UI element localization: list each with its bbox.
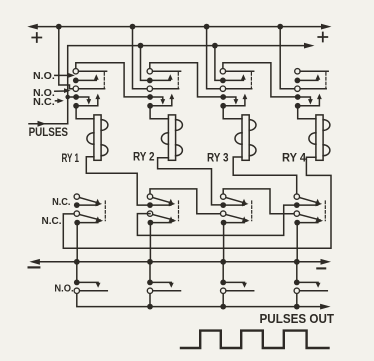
arrow PULSES OUT	[320, 304, 331, 310]
wire RY1 middle armature to - bus	[76, 225, 78, 261]
armature pivot RY2 upper 3	[147, 103, 153, 109]
armature pivot RY4 bottom	[294, 280, 300, 286]
mechanical linkage RY2 upper	[177, 73, 179, 88]
junction - bus at RY2	[147, 259, 153, 265]
armature arm RY4 middle 2	[297, 216, 320, 222]
contact N.C. fixed RY2 middle (circle 2)	[147, 211, 152, 216]
armature pivot RY2 upper 1	[147, 78, 153, 84]
armature pivot RY1 middle 1	[74, 202, 80, 208]
armature pivot RY4 upper 1	[295, 78, 301, 84]
relay coil RY1	[87, 115, 108, 160]
armature pivot RY4 upper 2	[295, 94, 301, 100]
armature arm RY3 bottom (N.O.)	[223, 282, 247, 287]
wire - bus to RY3 bottom armature	[222, 262, 224, 280]
contact blade RY2 middle 2	[153, 215, 176, 224]
junction output line RY3	[220, 304, 226, 310]
lead line N.O. 2	[55, 88, 71, 93]
svg-text:RY 4: RY 4	[282, 151, 306, 165]
contact blade RY1 middle 1	[80, 198, 102, 207]
contact N.O. fixed RY3 bottom	[221, 288, 226, 293]
wire - supply bus (bottom)	[33, 261, 327, 263]
mechanical linkage RY2 middle	[178, 201, 180, 221]
contact N.O. fixed RY4 upper (circle 1)	[295, 69, 300, 74]
wire + supply bus (top)	[31, 26, 327, 28]
junction output line RY4	[294, 304, 300, 310]
wire coil RY1 to RY2 middle armature	[86, 157, 147, 205]
contact N.O. fixed RY2 bottom	[147, 288, 152, 293]
wire pulse distribution bus	[68, 46, 309, 124]
contact N.O. fixed RY3 upper (circle 2)	[220, 86, 225, 91]
armature pivot RY4 middle 1	[294, 202, 300, 208]
armature arm RY4 middle 1	[297, 199, 320, 205]
junction pulse column RY1	[65, 95, 70, 100]
armature arm RY1 upper 2 (N.C. to arm 3)	[76, 97, 91, 105]
arrow right end of - bus	[321, 259, 332, 265]
contact N.O. fixed RY1 upper (circle 1)	[73, 69, 78, 74]
- terminal label left	[29, 266, 40, 268]
armature pivot RY3 upper 2	[220, 94, 226, 100]
wire RY3 middle contact to RY4 middle contact	[223, 189, 294, 214]
contact blade RY4 middle 2	[300, 215, 323, 224]
wire RY3 middle armature to - bus	[223, 225, 225, 261]
junction + bus to RY1	[56, 24, 62, 30]
relay coil RY4	[309, 115, 330, 160]
svg-text:PULSES: PULSES	[29, 125, 68, 139]
junction + bus to RY3	[204, 24, 210, 30]
wire fixed contact 1 RY3	[226, 70, 254, 72]
wire pulse bus to RY2 upper armature	[141, 46, 147, 81]
armature pivot RY1 upper 1	[73, 78, 79, 84]
contact N.O. fixed RY2 upper (circle 1)	[147, 69, 152, 74]
armature arm RY3 middle 2	[224, 216, 247, 222]
contact N.C. fixed RY3 middle (circle 2)	[221, 211, 226, 216]
armature arm RY1 middle 2	[77, 216, 100, 222]
arrow right end of + bus	[321, 24, 332, 30]
contact N.C. fixed RY4 middle (circle 2)	[294, 211, 299, 216]
contact N.C. fixed RY3 middle (circle 1)	[221, 194, 226, 199]
armature arm RY3 upper 2 (N.C. to arm 3)	[223, 97, 238, 105]
junction pulse bus to RY2	[138, 43, 144, 49]
armature arm RY4 upper 1	[297, 74, 320, 80]
contact N.C. fixed RY1 middle (circle 2)	[74, 211, 79, 216]
contact blade RY2 middle 1	[153, 198, 175, 207]
armature pivot RY3 bottom	[220, 280, 226, 286]
armature pivot RY1 middle 2	[74, 220, 80, 226]
contact N.O. fixed RY4 upper (circle 2)	[295, 86, 300, 91]
contact blade RY1 middle 2	[80, 215, 103, 224]
wire cross-connect RY2 middle contact to RY4 middle armature	[137, 205, 293, 235]
armature arm RY2 middle 2	[150, 216, 173, 222]
arrow left end of + bus	[27, 24, 38, 30]
contact N.O. fixed RY4 bottom	[294, 288, 299, 293]
wire fixed contact 2 RY1	[79, 88, 105, 90]
contact N.O. fixed RY3 upper (circle 1)	[220, 69, 225, 74]
contact blade RY4 middle 1	[300, 198, 322, 207]
svg-text:PULSES OUT: PULSES OUT	[260, 311, 335, 326]
wire fixed contact 2 RY4	[300, 88, 326, 90]
armature pivot RY2 middle 1	[147, 202, 153, 208]
armature arm RY3 upper 3	[223, 94, 247, 106]
armature pivot RY3 middle 2	[221, 220, 227, 226]
label N.C. middle 1	[52, 197, 70, 208]
wire PULSES OUT line	[150, 306, 325, 308]
armature arm RY4 upper 2 (N.C. to arm 3)	[298, 97, 313, 105]
+ terminal label right	[318, 33, 327, 42]
wire pulse column to RY1 upper armature 2	[68, 96, 73, 98]
svg-text:N.C.: N.C.	[52, 197, 70, 208]
wire fixed contact 1 RY2	[153, 70, 181, 72]
label N.C. middle 2	[42, 216, 62, 227]
wire RY2 middle armature to - bus	[149, 225, 151, 261]
lead line N.O. 1	[55, 73, 75, 78]
wire fixed contact RY4 bottom	[300, 290, 328, 292]
armature arm RY3 upper 1	[223, 74, 246, 80]
wire fixed contact RY1 bottom	[80, 290, 108, 292]
contact N.O. fixed RY1 upper (circle 2)	[73, 86, 78, 91]
label RY3	[207, 151, 229, 165]
armature arm RY1 upper 1	[76, 74, 99, 80]
contact N.C. fixed RY1 middle (circle 1)	[74, 194, 79, 199]
armature pivot RY1 bottom	[74, 280, 80, 286]
armature arm RY1 upper 3	[76, 94, 100, 106]
relay coil RY2	[161, 115, 182, 160]
label RY1	[62, 151, 80, 165]
wire coil RY2 to RY3 middle armature	[158, 158, 220, 205]
wire - bus to RY4 bottom armature	[296, 262, 298, 280]
svg-text:N.C.: N.C.	[42, 216, 62, 227]
junction + bus to RY2	[130, 24, 136, 30]
armature pivot RY1 upper 3	[73, 103, 79, 109]
mechanical linkage RY3 upper	[250, 73, 252, 88]
wire RY3 bottom contact to output line	[222, 294, 224, 307]
armature arm RY2 middle 1	[150, 199, 173, 205]
wire RY2 bottom contact to output line	[149, 294, 151, 307]
wire + bus to RY3 upper contact	[207, 27, 221, 89]
contact blade RY3 middle 1	[226, 198, 248, 207]
mechanical linkage RY3 middle	[251, 201, 253, 221]
svg-text:N.O.: N.O.	[33, 71, 55, 82]
relay coil RY3	[235, 115, 256, 160]
wire RY2 upper contact to RY3 armature	[150, 63, 220, 97]
wire + bus to RY2 upper contact	[133, 27, 148, 89]
wire fixed contact 2 RY3	[226, 88, 252, 90]
armature pivot RY3 upper 3	[220, 103, 226, 109]
svg-text:N.C.: N.C.	[33, 97, 55, 108]
armature pivot RY3 upper 1	[220, 78, 226, 84]
junction pulse bus to RY3	[212, 43, 218, 49]
arrow right end of pulse bus	[304, 43, 315, 49]
wire PULSES input	[29, 123, 68, 125]
label N.O. bottom	[54, 284, 73, 295]
wire coil RY4 feedback to RY1 middle contact	[63, 157, 331, 248]
wire RY4 middle armature to - bus	[296, 225, 298, 261]
armature arm RY2 upper 3	[150, 94, 174, 106]
armature arm RY4 upper 3	[298, 94, 322, 106]
contact N.C. fixed RY4 middle (circle 1)	[294, 194, 299, 199]
armature arm RY2 upper 2 (N.C. to arm 3)	[150, 97, 165, 105]
junction + bus to RY4	[277, 24, 283, 30]
wire fixed contact 1 RY4	[300, 70, 328, 72]
armature pivot RY2 middle 2	[148, 220, 154, 226]
wire + bus to RY4 upper contact	[280, 27, 295, 89]
waveform pulses out	[181, 331, 329, 348]
wire RY1 armature 3 to coil	[76, 109, 94, 119]
arrow on PULSES input	[38, 121, 47, 127]
wire RY3 armature 3 to coil	[223, 109, 242, 119]
wire RY1 bottom contact to output line	[77, 294, 150, 307]
junction - bus at RY3	[220, 259, 226, 265]
wire fixed contact 1 RY1	[79, 70, 107, 72]
wire RY1 upper contact to RY2 armature	[76, 63, 147, 97]
mechanical linkage RY1 upper	[103, 73, 105, 88]
contact N.O. fixed RY2 upper (circle 2)	[147, 86, 152, 91]
wire fixed contact 2 RY2	[153, 88, 179, 90]
label RY4	[282, 151, 306, 165]
armature pivot RY2 upper 2	[147, 94, 153, 100]
mechanical linkage RY4 upper	[325, 73, 327, 88]
wire RY3 upper contact to RY4 armature	[223, 63, 295, 97]
+ terminal label left	[32, 33, 41, 42]
label N.C. (contact 3)	[33, 97, 55, 108]
armature pivot RY1 upper 2	[73, 94, 79, 100]
wire RY2 middle contact to RY3 middle contact	[150, 189, 220, 214]
armature arm RY4 bottom (N.O.)	[297, 282, 321, 287]
junction output line RY2	[147, 304, 153, 310]
arrow left end of - bus	[29, 259, 40, 265]
junction - bus at RY4	[294, 259, 300, 265]
junction - bus at RY1	[74, 259, 80, 265]
wire - bus to RY2 bottom armature	[149, 262, 151, 280]
armature pivot RY2 bottom	[147, 280, 153, 286]
wire coil RY3 to RY4 middle contact	[233, 157, 297, 194]
contact blade RY3 middle 2	[226, 215, 249, 224]
wire + bus to RY1 upper contact	[59, 27, 73, 89]
wire fixed contact RY2 bottom	[153, 290, 181, 292]
svg-text:RY 2: RY 2	[133, 150, 155, 164]
- terminal label right	[317, 267, 325, 269]
mechanical linkage RY4 middle	[324, 201, 326, 221]
contact N.O. fixed RY1 bottom	[74, 288, 79, 293]
lead arrow N.C.	[56, 98, 64, 103]
mechanical linkage RY1 middle	[104, 201, 106, 221]
wire RY4 bottom contact to output line	[296, 294, 298, 307]
label RY2	[133, 150, 155, 164]
svg-text:RY 1: RY 1	[62, 151, 80, 165]
contact N.C. fixed RY2 middle (circle 1)	[147, 194, 152, 199]
armature pivot RY4 middle 2	[294, 220, 300, 226]
wire RY2 armature 3 to coil	[150, 109, 168, 119]
wire fixed contact RY3 bottom	[226, 290, 254, 292]
label PULSES OUT	[260, 311, 335, 326]
label PULSES	[29, 125, 68, 139]
armature pivot RY3 middle 1	[220, 202, 226, 208]
label N.O. (contact 2)	[33, 88, 55, 99]
wire RY4 armature 3 to coil	[298, 109, 316, 119]
armature pivot RY4 upper 3	[295, 103, 301, 109]
svg-text:RY 3: RY 3	[207, 151, 229, 165]
svg-text:N.O.: N.O.	[54, 284, 73, 295]
armature arm RY3 middle 1	[223, 199, 246, 205]
wire pulse bus to RY3 upper armature	[215, 46, 220, 81]
armature arm RY2 bottom (N.O.)	[150, 282, 174, 287]
label N.O. (contact 1)	[33, 71, 55, 82]
armature arm RY1 bottom (N.O.)	[77, 282, 101, 287]
armature arm RY2 upper 1	[150, 74, 173, 80]
armature arm RY1 middle 1	[77, 199, 100, 205]
wire - bus to RY1 bottom armature	[76, 262, 78, 280]
